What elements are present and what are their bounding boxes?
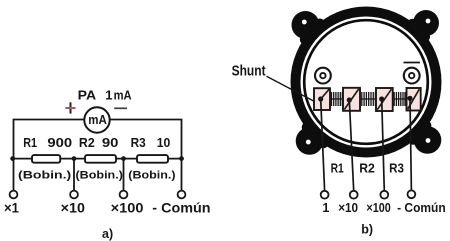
svg-text:PA: PA xyxy=(78,88,97,103)
svg-text:- Común: - Común xyxy=(397,201,446,215)
svg-text:- Común: - Común xyxy=(152,201,210,216)
svg-text:×100: ×100 xyxy=(111,201,144,216)
svg-text:mA: mA xyxy=(114,88,133,103)
svg-text:×1: ×1 xyxy=(4,201,19,216)
svg-text:b): b) xyxy=(361,223,373,237)
svg-text:1: 1 xyxy=(105,88,112,103)
svg-text:R1: R1 xyxy=(23,135,37,150)
svg-text:90: 90 xyxy=(102,135,119,150)
svg-text:Shunt: Shunt xyxy=(232,63,266,79)
svg-text:mA: mA xyxy=(88,113,107,127)
svg-text:R1: R1 xyxy=(331,162,344,176)
svg-text:×10: ×10 xyxy=(338,201,358,215)
svg-text:(Bobin.): (Bobin.) xyxy=(18,169,72,181)
svg-text:10: 10 xyxy=(157,135,171,150)
svg-text:(Bobin.): (Bobin.) xyxy=(128,169,176,181)
svg-text:×100: ×100 xyxy=(366,201,390,215)
svg-text:R3: R3 xyxy=(131,135,146,150)
svg-text:×10: ×10 xyxy=(61,201,85,216)
svg-text:R3: R3 xyxy=(389,162,404,176)
svg-text:R2: R2 xyxy=(359,162,375,176)
svg-text:1: 1 xyxy=(322,201,329,215)
svg-text:900: 900 xyxy=(47,135,72,150)
svg-text:a): a) xyxy=(102,227,113,241)
svg-text:R2: R2 xyxy=(79,135,95,150)
svg-text:(Bobin.): (Bobin.) xyxy=(76,169,124,181)
